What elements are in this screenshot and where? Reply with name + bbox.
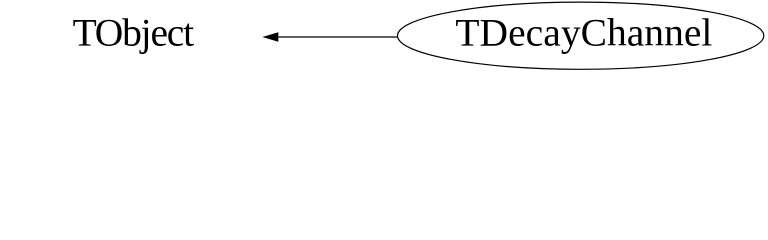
svg-text:TObject: TObject	[73, 10, 195, 54]
node TDecayChannel ellipse	[398, 2, 764, 69]
svg-text:TDecayChannel: TDecayChannel	[455, 11, 712, 55]
wire: inheritance edge shaft	[277, 36, 398, 38]
arrowhead pointing to TObject	[263, 33, 278, 42]
